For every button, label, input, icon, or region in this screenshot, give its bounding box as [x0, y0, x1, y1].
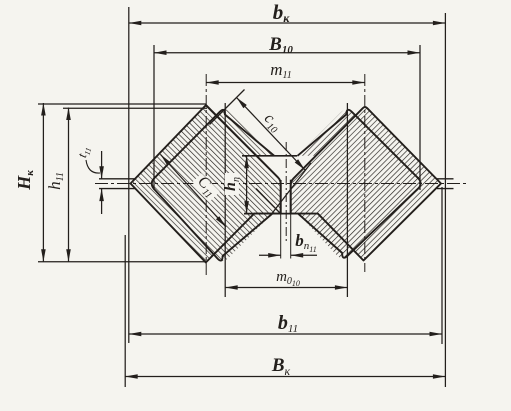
svg-text:m11: m11 — [270, 60, 292, 81]
left roll gap lines — [99, 178, 136, 180]
dimension B_10 — [154, 52, 420, 54]
right rounded rhombus C (pass 11 contour) — [298, 110, 421, 258]
svg-text:h11: h11 — [45, 172, 66, 190]
web neck right wall — [290, 180, 292, 214]
web centerline (dash-dot) — [285, 142, 287, 242]
svg-text:Hк: Hк — [14, 170, 36, 191]
svg-text:bп11: bп11 — [295, 231, 316, 254]
dimension h_11 — [68, 108, 70, 262]
extension line B10 left — [153, 45, 155, 190]
label c_10 — [258, 109, 286, 136]
extension line m010 left — [224, 103, 226, 297]
svg-text:t11: t11 — [74, 145, 93, 160]
axis of right pass 10 (dash-dot) — [364, 74, 366, 272]
label h_p — [225, 173, 239, 195]
extension line right (b_11) — [441, 187, 443, 344]
left rounded rhombus B (pass 11 contour) — [152, 110, 275, 261]
svg-text:m010: m010 — [276, 269, 300, 288]
dimension c_10 — [237, 98, 306, 171]
hatch fill of left caliber union (passes 10+11) — [131, 105, 281, 263]
extension line left (B_k) — [124, 235, 126, 387]
stray hatch line at web — [256, 189, 280, 214]
dimension B_k — [125, 376, 445, 378]
extension line B10 right — [419, 45, 421, 190]
svg-text:B10: B10 — [268, 34, 293, 56]
web neck left wall — [280, 180, 282, 214]
dimension b_11 — [129, 333, 442, 335]
left outline rhombus A (pass 10 contour) — [131, 105, 281, 263]
dimension t_11 — [101, 151, 103, 179]
right outline rhombus D (pass 10 contour) — [291, 107, 441, 260]
web bottom flat — [244, 213, 296, 215]
dimension b_k — [129, 22, 446, 24]
dimension m_11 — [206, 82, 365, 84]
main horizontal axis (dash-dot) — [95, 183, 466, 185]
extension line right (b_k & B_k) — [444, 13, 446, 387]
dimension H_k — [42, 103, 44, 262]
dimension h_p — [246, 156, 248, 214]
dimension m_0_10 — [225, 287, 347, 289]
svg-text:b11: b11 — [278, 312, 298, 335]
label c_11 — [192, 173, 220, 201]
right roll gap lines — [437, 178, 454, 180]
svg-text:Bк: Bк — [271, 355, 291, 378]
extension line left (b_k & b_11) — [128, 7, 130, 343]
hatch fill of right caliber union (passes 10+11) — [291, 106, 441, 261]
dimension c_11 — [161, 155, 227, 228]
axis of left pass 10 (dash-dot) — [205, 74, 207, 277]
extension line m010 right — [346, 103, 348, 297]
svg-text:bк: bк — [273, 0, 291, 25]
web top flat — [242, 155, 297, 157]
dimension b_p11 — [259, 254, 281, 256]
